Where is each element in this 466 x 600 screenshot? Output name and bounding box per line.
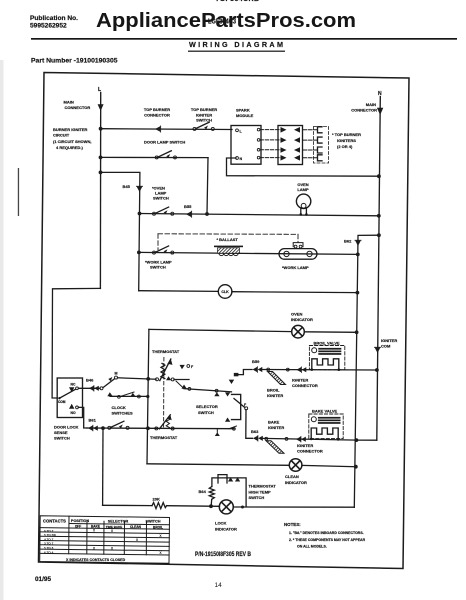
connector arrow on L [98,104,104,111]
wire L main line [99,93,101,289]
svg-text:6 TO 4: 6 TO 4 [44,550,54,554]
wire top burner row [101,128,233,131]
svg-text:SWITCH: SWITCH [198,410,214,415]
table row labels [44,529,57,555]
broil igniter terminal left [267,368,270,371]
junction N / B62 branch [377,233,381,237]
wire door lamp row [101,156,209,158]
igniter electrode tips [318,127,323,161]
svg-text:B59: B59 [252,359,260,364]
svg-text:BAKE: BAKE [268,420,280,425]
svg-text:SWITCH: SWITCH [196,118,212,123]
wire row C [87,427,234,430]
wire oven lamp row [140,214,379,216]
switch work lamp [153,246,174,254]
svg-text:INDICATOR: INDICATOR [215,526,237,531]
wire row Bp [110,395,146,397]
svg-text:NO: NO [71,411,76,415]
connector arrow on N [377,108,383,115]
svg-text:IGNITER: IGNITER [381,338,397,343]
dashed enclosure work lamp circuit [158,234,298,250]
svg-text:01/95: 01/95 [35,576,51,583]
svg-text:BAKE VALVE: BAKE VALVE [312,409,338,414]
spark gap electrode pairs [281,127,301,161]
row C tail tick [216,429,218,433]
svg-text:CONNECTOR: CONNECTOR [144,112,170,117]
junction door-lamp drop / oven lamp row [205,212,209,216]
svg-text:IGNITER: IGNITER [292,378,308,383]
svg-text:CONNECTOR: CONNECTOR [297,449,323,454]
svg-text:20K: 20K [153,497,160,502]
junction oven lamp row / N [377,214,381,218]
svg-text:CLOCK: CLOCK [112,405,126,410]
wire NC output to clock row A [78,387,100,389]
bake valve pins [310,438,313,441]
connector B63 arrows [253,436,263,442]
svg-text:CIRCUIT: CIRCUIT [53,133,70,138]
clean indicator lamp [289,459,302,472]
connector B45 arrow [137,186,143,192]
svg-text:X: X [93,529,96,533]
svg-text:DOOR LAMP SWITCH: DOOR LAMP SWITCH [144,140,185,145]
junction row A / indicator branch [146,377,150,381]
wire indicator branch vertical [147,329,149,463]
wire clean branch vertical [147,464,289,466]
junction row C / lock branch [101,426,105,430]
svg-text:P/N-19150I8F305 REV B: P/N-19150I8F305 REV B [195,551,251,558]
broil igniter terminal right [286,368,289,371]
door lock switch box [57,378,82,418]
connector IGNITER COM arrow [375,347,381,353]
svg-text:LAMP: LAMP [297,187,309,192]
connector igniter arrows (broil) [297,367,307,373]
wire broil row [263,369,377,372]
wire door lock NO to row C [78,407,87,428]
svg-text:NC: NC [71,382,76,386]
wire lock branch vertical [102,428,104,505]
wire clock row [139,290,219,293]
pin L of spark module [236,129,239,132]
svg-text:DOOR LOCK: DOOR LOCK [54,425,79,430]
svg-text:CLK: CLK [221,290,229,294]
work lamp fluorescent tube [279,243,317,260]
wire door lamp drop [207,158,208,214]
svg-text:SWITCH: SWITCH [153,196,169,201]
svg-text:X INDICATES CONTACTS CLOSED: X INDICATES CONTACTS CLOSED [66,558,126,562]
wire lock row tail [234,506,355,508]
bake igniter terminal left [265,437,268,440]
resistor high-temp vertical [209,487,214,506]
svg-text:* BALLAST: * BALLAST [217,237,239,242]
svg-text:MAIN: MAIN [366,102,376,107]
door lock NO contact [69,404,74,409]
bake valve box [309,414,343,439]
junction row C / row Bp drop [146,426,150,430]
svg-text:LGF354C3: LGF354C3 [208,17,236,26]
dashed box around igniters [314,127,329,164]
contact F stub [180,365,185,369]
junction L / top burner [99,127,103,131]
wire selector to bake row [246,410,253,439]
svg-text:COM: COM [58,400,66,404]
svg-text:SWITCHES: SWITCHES [112,411,133,416]
switch clock row A [100,387,103,390]
svg-text:CLEAN: CLEAN [285,474,299,479]
svg-text:Publication No.: Publication No. [30,15,78,22]
svg-text:BROIL: BROIL [153,525,163,529]
broil valve contact wave [312,359,339,369]
svg-text:F: F [191,365,194,369]
svg-text:X: X [159,534,162,538]
svg-text:IGNITER: IGNITER [196,112,212,117]
connector B62 arrow [355,240,361,246]
junction clock row / neutral drop [356,291,360,295]
wire row Bp drop [146,395,149,398]
svg-text:SWITCH: SWITCH [150,265,166,270]
svg-text:N: N [240,157,243,161]
svg-text:M: M [115,372,118,376]
wire oven indicator row [149,329,292,331]
selector bracket [225,392,230,396]
wire lock row [103,504,152,506]
wire N main line [377,97,381,441]
svg-text:B61: B61 [89,418,97,423]
wire work lamp neutral drop [354,254,358,507]
svg-text:L: L [240,129,243,133]
switch top burner igniter [193,122,214,130]
wire N end corner [356,439,376,441]
svg-text:*WORK LAMP: *WORK LAMP [282,265,309,270]
svg-text:POSITION: POSITION [71,519,89,523]
svg-text:(2 OR 4): (2 OR 4) [337,144,353,149]
svg-text:OFF: OFF [75,524,81,528]
junction lamp branch / oven lamp row [138,212,142,216]
svg-text:MODULE: MODULE [236,113,254,118]
junction L / door lamp [99,156,103,160]
svg-text:B64: B64 [199,489,207,494]
junction indicator row / neutral drop [355,330,359,334]
oven indicator lamp [292,325,305,338]
svg-text:INDICATOR: INDICATOR [285,480,307,485]
svg-text:CONTACTS: CONTACTS [43,519,66,524]
svg-text:SWITCH: SWITCH [249,495,265,500]
broil igniter [268,372,286,385]
svg-text:SWITCH: SWITCH [146,520,161,524]
svg-text:4 REQUIRED.): 4 REQUIRED.) [56,145,84,150]
junction lock row / sensor resistor [209,504,213,508]
svg-text:B62: B62 [344,239,352,244]
svg-text:5995262952: 5995262952 [30,23,67,30]
wires spark module to gap box [260,129,281,131]
svg-text:TOP BURNER: TOP BURNER [191,107,217,112]
junction N line / spark return [377,174,381,178]
bake valve contact wave [311,428,338,438]
wire clean row right part [302,465,356,466]
junction bake row / neutral drop [355,438,359,442]
spark module box [231,126,261,165]
svg-text:THERMOSTAT: THERMOSTAT [152,349,180,354]
wire row A [118,378,157,379]
svg-text:IGNITERS: IGNITERS [337,138,356,143]
svg-text:X: X [136,538,139,542]
wire row B [176,381,184,389]
scan artifact left edge [18,168,19,216]
junction broil row / N [375,368,379,372]
svg-text:ON ALL MODELS.: ON ALL MODELS. [297,545,327,549]
spark gap box [278,126,303,165]
svg-text:X: X [159,551,162,555]
svg-text:NOTES:: NOTES: [284,522,301,527]
broil valve pins [311,368,314,371]
svg-text:CONNECTOR: CONNECTOR [351,107,377,112]
svg-text:BROIL: BROIL [267,388,280,393]
bake igniter terminal right [285,438,288,441]
svg-text:B45: B45 [123,184,131,189]
door lock blade [59,389,75,398]
pin N of spark module [236,157,239,160]
high temp switch bracket [212,478,246,506]
svg-text:TIME BAKE: TIME BAKE [106,525,123,529]
connector B55 arrow [186,211,192,217]
svg-text:SELECTOR: SELECTOR [196,404,218,409]
svg-text:* TOP BURNER: * TOP BURNER [332,132,361,137]
svg-text:MAIN: MAIN [64,100,74,105]
row B contacts [182,385,187,389]
svg-text:LOCK: LOCK [215,521,226,526]
row C end blade [229,426,237,429]
svg-text:TGF354CKB: TGF354CKB [215,0,259,3]
switch oven lamp [153,207,174,215]
svg-text:INDICATOR: INDICATOR [291,317,313,322]
connector arrow top burner [155,126,161,132]
wire work lamp row [139,252,358,254]
junction L / lamp branch [99,171,103,175]
svg-text:1. "B#." DENOTES INBOARD CON: 1. "B#." DENOTES INBOARD CONNECTORS. [289,531,364,535]
svg-text:B63: B63 [251,429,259,434]
top rule line [31,38,457,40]
resistor 20K [152,503,167,509]
dashed mechanical link [163,358,165,428]
switch door lamp [155,151,176,159]
svg-text:CONNECTOR: CONNECTOR [292,383,318,388]
svg-text:IGNITER: IGNITER [267,393,283,398]
bake valve coil [311,417,316,422]
connector B59 arrows [253,367,263,373]
thermostat lower element [155,427,158,430]
spark module output pins [257,128,260,131]
svg-text:IGNITER: IGNITER [268,425,284,430]
svg-text:B46: B46 [86,378,94,383]
svg-text:14: 14 [215,582,223,589]
svg-text:SWITCH: SWITCH [54,436,70,441]
door lock NC contact [69,387,74,392]
svg-text:WIRING DIAGRAM: WIRING DIAGRAM [189,40,283,49]
svg-text:CONNECTOR: CONNECTOR [65,105,91,110]
bake igniter [266,441,284,454]
wire row A tail [174,379,189,381]
wires gap box to igniter tips [303,130,318,158]
wire B62 branch from N [358,235,379,254]
svg-text:SPARK: SPARK [236,108,250,113]
svg-text:B55: B55 [184,204,192,209]
connector B46 arrows [89,386,99,392]
wire spark module N to N line [227,158,379,176]
thermostat upper element [156,378,159,381]
svg-text:X: X [111,529,114,533]
svg-text:THERMOSTAT: THERMOSTAT [249,484,277,489]
wire left feeder to door lock [52,288,100,398]
svg-text:CLEAN: CLEAN [130,525,142,529]
clock motor CLK [218,285,232,299]
svg-text:COM: COM [381,344,391,349]
junction work lamp row / drop [356,253,360,257]
wire bake row [263,438,356,440]
contacts table [40,516,170,564]
connector B61 arrows [88,425,98,431]
svg-text:BROIL VALVE: BROIL VALVE [314,341,341,346]
svg-text:Part Number -19100190305: Part Number -19100190305 [31,58,118,65]
svg-text:HIGH TEMP: HIGH TEMP [249,489,272,494]
connector igniter arrows (bake) [296,436,306,442]
row Bp contacts [107,392,112,396]
wire lock row mid [167,505,220,508]
svg-text:OVEN: OVEN [291,312,302,317]
selector common contact F [245,407,248,410]
svg-text:TOP BURNER: TOP BURNER [144,107,170,112]
diagram border [39,73,410,569]
svg-text:BURNER IGNITER: BURNER IGNITER [53,127,88,132]
broil output corner [239,370,253,375]
broil valve coil [312,348,317,353]
wire lamp branch from L [101,172,140,290]
oven lamp bulb [296,194,310,214]
svg-text:IGNITER: IGNITER [297,443,313,448]
svg-text:THERMOSTAT: THERMOSTAT [150,435,178,440]
svg-text:SENSE: SENSE [54,430,68,435]
svg-text:2. * THESE COMPONENTS MAY N: 2. * THESE COMPONENTS MAY NOT APPEAR [289,538,366,542]
table X marks [93,529,163,555]
svg-text:(1 CIRCUIT SHOWN,: (1 CIRCUIT SHOWN, [53,139,91,144]
lock indicator lamp [219,500,233,514]
high temp switch contact [218,475,227,483]
broil valve box [309,346,344,370]
junction clean row / neutral drop [354,465,358,469]
svg-text:SELECTOR: SELECTOR [108,519,129,523]
switch row C [108,421,129,429]
ballast [214,246,243,248]
